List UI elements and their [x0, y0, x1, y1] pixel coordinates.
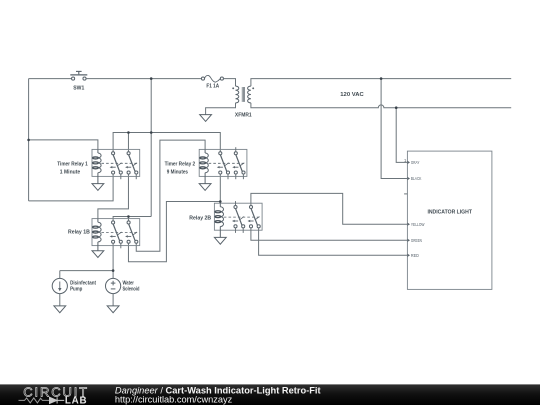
node junction bus / hot drop — [150, 131, 153, 134]
wire top rail middle segment — [86, 78, 201, 80]
fuse F1 — [201, 75, 223, 82]
ground Timer Relay 1 coil ground — [92, 184, 104, 191]
wire Timer Relay 1 pole2 NO stub — [135, 174, 137, 179]
wire pump bottom lead — [59, 294, 61, 306]
transformer XFMR1 secondary phase dot — [252, 87, 254, 89]
wire Relay 1B pole1 NO stub — [120, 243, 122, 248]
transformer XFMR1 core — [242, 87, 244, 102]
wire secondary bottom rail with hop — [251, 103, 511, 108]
wire Timer Relay 1 pole2 NC to Relay 1B coil — [98, 174, 129, 218]
svg-text:120 VAC: 120 VAC — [340, 92, 363, 98]
svg-text:YELLOW: YELLOW — [411, 222, 425, 227]
logo resistor symbol — [19, 398, 50, 403]
wire relay 1B pole2 common stub — [127, 217, 129, 221]
current source I1 Disinfectant Pump — [52, 278, 67, 293]
wire GRAY feed from neutral — [396, 108, 407, 163]
node junction neutral rail / gray feed — [395, 106, 398, 109]
wire bottom left rail to Timer Relay 1 pole1 NC — [29, 174, 114, 201]
svg-text:Relay 2B: Relay 2B — [189, 215, 211, 221]
node junction relay 2B coil node — [219, 200, 222, 203]
relay K2 Relay 2B body — [214, 203, 262, 230]
wire Relay 2B pole1 NC stub — [235, 228, 237, 233]
svg-text:Timer Relay 1: Timer Relay 1 — [57, 161, 88, 167]
pin GREEN arrow — [408, 239, 411, 242]
svg-text:9 Minutes: 9 Minutes — [167, 170, 188, 176]
node junction left rail / TR1 coil feed — [27, 139, 30, 142]
svg-text:http://circuitlab.com/cwnzayz: http://circuitlab.com/cwnzayz — [115, 395, 232, 405]
wire Relay 2B pole1 NO stub — [242, 228, 244, 233]
wire pump top lead — [59, 271, 61, 279]
relay K1 Relay 1B actuator dashed link — [101, 232, 137, 234]
wire Timer Relay 1 pole1 NO stub — [120, 174, 122, 179]
relay U2 Timer Relay 2 pole 1 blade and contacts — [217, 152, 230, 174]
pin YELLOW arrow — [408, 223, 411, 226]
wire solenoid bottom lead — [112, 294, 114, 306]
relay K2 Relay 2B actuator dashed link — [224, 216, 260, 218]
relay U1 Timer Relay 1 pole 2 blade and contacts — [125, 152, 138, 174]
node junction relay1B commons — [127, 215, 130, 218]
relay K1 Relay 1B body — [92, 219, 140, 246]
relay U2 Timer Relay 2 coil — [204, 149, 206, 153]
wire BLACK feed from hot — [381, 79, 407, 179]
svg-text:RED: RED — [411, 253, 420, 258]
wire Timer Relay 2 pole2 common stub — [235, 147, 237, 152]
switch SW1 — [70, 71, 87, 80]
wire Relay 2B pole2 NC to GREEN — [251, 228, 408, 240]
wire Timer Relay 2 pole2 NC stub — [235, 174, 237, 179]
node junction bus / TR1 pole2 common — [127, 131, 130, 134]
wire commons bus — [113, 133, 220, 152]
svg-text:Pump: Pump — [70, 287, 83, 293]
relay K2 Relay 2B pole 1 blade and contacts — [232, 206, 245, 228]
svg-text:Solenoid: Solenoid — [123, 287, 140, 293]
transformer XFMR1 primary winding — [236, 86, 239, 103]
wire Relay 2B pole2 common to YELLOW — [251, 193, 408, 224]
wire Timer Relay 1 coil feed — [29, 140, 98, 150]
wire Relay 1B pole1 NC to pump net — [112, 243, 114, 270]
wire transformer primary bottom to ground — [206, 103, 236, 115]
relay U1 Timer Relay 1 body — [92, 149, 140, 176]
svg-text:Disinfectant: Disinfectant — [70, 281, 96, 287]
relay K1 Relay 1B pole 1 blade and contacts — [110, 221, 123, 243]
svg-text:Relay 1B: Relay 1B — [68, 230, 90, 236]
node junction top rail / black feed — [380, 77, 383, 80]
wire Timer Relay 2 pole1 NC to Relay 2B coil — [219, 174, 221, 203]
transformer XFMR1 primary phase dot — [232, 87, 234, 89]
pin BLACK arrow — [408, 177, 411, 180]
svg-text:GRAY: GRAY — [411, 160, 420, 165]
wire pump net horizontal — [60, 270, 113, 272]
voltage source V1 Water Solenoid — [106, 278, 121, 293]
wire Relay 2B pole2 NO to RED — [259, 228, 408, 255]
svg-text:Timer Relay 2: Timer Relay 2 — [165, 161, 196, 167]
ground solenoid ground — [107, 306, 119, 313]
relay U2 Timer Relay 2 body — [199, 149, 247, 176]
relay K1 Relay 1B coil — [97, 219, 99, 223]
svg-text:GREEN: GREEN — [411, 238, 422, 243]
node junction pump net — [112, 269, 115, 272]
relay K1 Relay 1B pole 2 blade and contacts — [125, 221, 138, 243]
relay U2 Timer Relay 2 pole 2 blade and contacts — [232, 152, 245, 174]
wire top rail left segment — [29, 78, 72, 80]
unconnected pin stub — [404, 193, 407, 195]
svg-text:Water: Water — [123, 281, 135, 287]
wire relay 1B commons bus — [113, 217, 151, 221]
wire Timer Relay 2 pole1 NO stub — [227, 174, 229, 179]
svg-text:BLACK: BLACK — [411, 176, 422, 181]
wire Relay 2B pole1 common stub — [235, 201, 237, 205]
indicator light box — [407, 151, 492, 289]
node junction top rail / hot drop — [150, 77, 153, 80]
wire left rail — [28, 79, 30, 201]
svg-text:INDICATOR LIGHT: INDICATOR LIGHT — [427, 209, 472, 215]
wire secondary top lead to top rail — [251, 79, 511, 87]
ground Relay 1B coil ground — [92, 251, 104, 258]
transformer XFMR1 secondary winding — [248, 86, 251, 103]
wire hot drop from top rail — [150, 79, 152, 217]
wire Relay 1B pole2 NC to Relay 2B coil node — [128, 202, 220, 262]
ground Timer Relay 2 coil ground — [199, 184, 211, 191]
ground Relay 2B coil ground — [214, 237, 226, 244]
pin RED arrow — [408, 254, 411, 257]
wire Relay 1B pole2 NO to Timer Relay 2 coil — [136, 140, 205, 251]
svg-text:SW1: SW1 — [73, 86, 84, 92]
svg-text:XFMR1: XFMR1 — [235, 112, 252, 118]
ground transformer primary ground — [200, 115, 212, 122]
relay U2 Timer Relay 2 actuator dashed link — [209, 162, 245, 164]
wire Timer Relay 1 pole2 common feed — [127, 133, 129, 152]
logo diode symbol — [50, 397, 65, 403]
relay K2 Relay 2B pole 2 blade and contacts — [248, 206, 261, 228]
wire solenoid top lead — [112, 271, 114, 279]
wire top rail to transformer primary — [223, 79, 235, 87]
relay K2 Relay 2B coil — [219, 203, 221, 207]
wire Timer Relay 2 pole2 NO stub — [242, 174, 244, 179]
ground pump ground — [54, 306, 66, 313]
relay U1 Timer Relay 1 pole 1 blade and contacts — [110, 152, 123, 174]
svg-text:LAB: LAB — [65, 396, 87, 405]
svg-text:F1 1A: F1 1A — [206, 84, 219, 90]
pin GRAY arrow — [408, 161, 411, 164]
relay U1 Timer Relay 1 actuator dashed link — [101, 162, 137, 164]
svg-text:1 Minute: 1 Minute — [60, 170, 80, 176]
relay U1 Timer Relay 1 coil — [97, 149, 99, 153]
